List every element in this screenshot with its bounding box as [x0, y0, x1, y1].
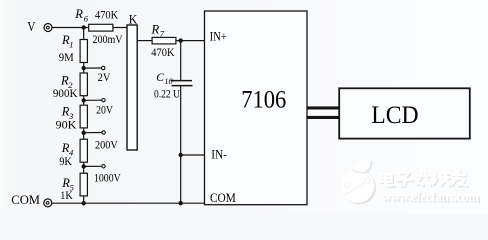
- junction node 1000V: [82, 164, 86, 168]
- wire to IN-: [181, 154, 205, 156]
- svg-text:R: R: [151, 23, 160, 37]
- wire chain top: [83, 28, 85, 40]
- op-amp U1 7106 IC box: [205, 11, 308, 205]
- svg-text:900K: 900K: [53, 88, 78, 100]
- contact 1000V: [102, 165, 105, 168]
- wire R1 to R2: [83, 63, 85, 74]
- resistor R4: [80, 139, 87, 162]
- wire R7 to IN+: [176, 40, 205, 42]
- svg-text:200mV: 200mV: [93, 34, 124, 46]
- svg-text:COM: COM: [210, 191, 236, 205]
- terminal COM: [44, 199, 52, 207]
- terminal V: [44, 24, 52, 32]
- wire tap 20V: [84, 99, 102, 101]
- resistor R1: [80, 40, 87, 63]
- svg-text:10: 10: [164, 76, 173, 86]
- contact 2V: [102, 66, 105, 69]
- junction node IN+: [179, 38, 183, 42]
- svg-text:470K: 470K: [95, 10, 119, 22]
- svg-text:LCD: LCD: [371, 102, 418, 129]
- wire R3 to R4: [83, 128, 85, 139]
- junction node top: [82, 25, 86, 29]
- resistor R3: [80, 105, 87, 128]
- junction node R5-rail: [82, 201, 86, 205]
- resistor R2: [80, 73, 87, 96]
- resistor R7: [152, 37, 176, 44]
- svg-text:20V: 20V: [96, 104, 113, 116]
- svg-text:200V: 200V: [95, 139, 118, 151]
- bus wire lower: [307, 116, 339, 119]
- svg-text:1000V: 1000V: [94, 172, 121, 184]
- junction node 20V: [82, 98, 86, 102]
- svg-text:1: 1: [69, 40, 73, 50]
- switch K: [127, 25, 137, 150]
- contact 200V: [102, 131, 105, 134]
- svg-text:90K: 90K: [56, 120, 78, 132]
- svg-text:IN+: IN+: [210, 30, 227, 44]
- resistor R5: [80, 173, 87, 196]
- svg-text:IN-: IN-: [211, 148, 227, 162]
- watermark logo: [341, 160, 376, 205]
- wire K to R7: [137, 40, 152, 42]
- wire C10 to rail: [180, 86, 182, 204]
- wire tap 2V: [84, 67, 102, 69]
- wire tap 1000V: [84, 165, 102, 167]
- wire junction to C10: [180, 41, 182, 80]
- svg-text:R: R: [74, 7, 83, 21]
- svg-text:C: C: [156, 72, 164, 84]
- LCD block: [339, 88, 470, 138]
- svg-text:7: 7: [160, 29, 165, 39]
- watermark text dianzifashaoyou: [380, 171, 468, 187]
- capacitor C10: [171, 81, 193, 86]
- junction node 200V: [82, 131, 86, 135]
- svg-text:1K: 1K: [60, 190, 73, 202]
- svg-text:2V: 2V: [98, 72, 111, 84]
- svg-text:COM: COM: [11, 193, 40, 207]
- wire R2 to R3: [83, 96, 85, 106]
- svg-text:V: V: [27, 19, 35, 34]
- svg-text:9M: 9M: [59, 52, 74, 64]
- svg-text:6: 6: [84, 13, 89, 23]
- contact 20V: [102, 99, 105, 102]
- junction node IN-: [179, 153, 183, 157]
- junction node 2V: [82, 66, 86, 70]
- svg-text:www.elecfans.com: www.elecfans.com: [382, 190, 479, 205]
- svg-text:K: K: [129, 13, 138, 27]
- svg-text:9K: 9K: [59, 156, 72, 168]
- svg-text:0.22 U: 0.22 U: [154, 89, 181, 101]
- wire tap 200V: [84, 132, 102, 134]
- junction node cap-rail: [179, 201, 183, 205]
- resistor R6: [89, 24, 113, 31]
- wire R5 to bottom: [83, 196, 85, 203]
- svg-text:7106: 7106: [241, 87, 286, 114]
- bus wire upper: [307, 106, 339, 109]
- wire V to R6: [52, 27, 88, 29]
- wire R4 to R5: [83, 162, 85, 173]
- wire COM bottom rail: [52, 202, 205, 204]
- svg-text:470K: 470K: [151, 47, 175, 59]
- wire R6 to K: [113, 27, 127, 29]
